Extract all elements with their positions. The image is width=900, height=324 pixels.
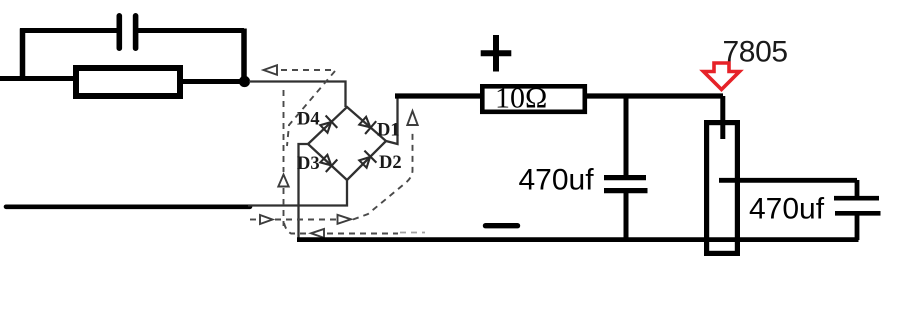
svg-text:D1: D1	[377, 121, 400, 141]
svg-text:470uf: 470uf	[519, 164, 595, 197]
svg-text:7805: 7805	[723, 36, 788, 69]
svg-text:D2: D2	[379, 153, 402, 173]
svg-text:D3: D3	[297, 154, 320, 174]
svg-text:D4: D4	[297, 110, 320, 130]
svg-text:470uf: 470uf	[749, 193, 825, 226]
svg-text:10Ω: 10Ω	[495, 82, 547, 115]
